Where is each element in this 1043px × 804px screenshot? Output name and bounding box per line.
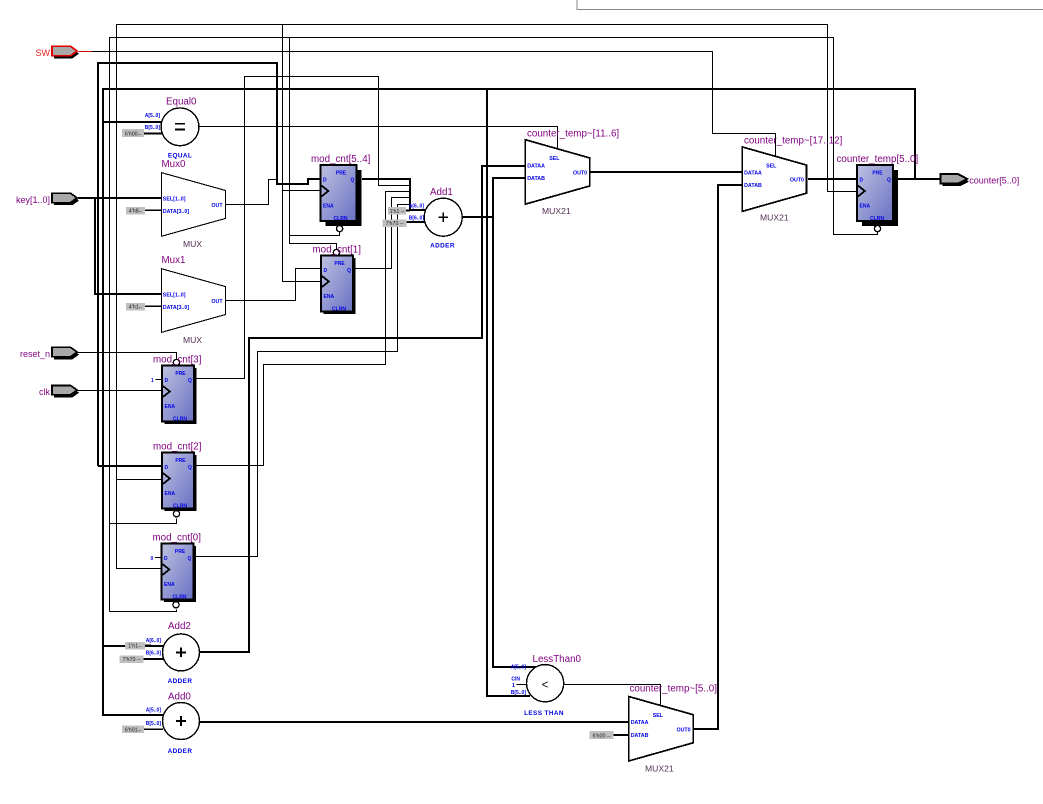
adder Add0 (163, 691, 200, 755)
constant 6'h01 for Add0 (122, 726, 163, 734)
svg-text:OUT0: OUT0 (573, 170, 587, 176)
svg-text:SEL: SEL (653, 713, 664, 719)
svg-text:A[6..0]: A[6..0] (146, 638, 162, 644)
wire key branch to Mux1 SEL (95, 198, 161, 294)
svg-text:DATAA: DATAA (744, 171, 762, 177)
wire SW red stub (79, 51, 92, 53)
wire Mux0 OUT joiner (226, 180, 277, 205)
svg-text:SEL[1..0]: SEL[1..0] (163, 292, 186, 298)
svg-text:counter[5..0]: counter[5..0] (969, 176, 1019, 186)
svg-text:Q: Q (188, 378, 192, 384)
wire reload bus top run to mod_cnt[5..4] D (98, 63, 320, 466)
svg-text:Q: Q (887, 178, 891, 184)
svg-text:MUX: MUX (183, 335, 202, 345)
svg-text:ENA: ENA (165, 491, 176, 497)
svg-text:DATAA: DATAA (527, 163, 545, 169)
wire mod_cnt[1] Q riser (354, 198, 410, 269)
svg-text:MUX: MUX (183, 239, 202, 249)
wire clk branch to mod_cnt[2] clock (117, 479, 163, 481)
svg-text:LESS THAN: LESS THAN (524, 710, 564, 717)
constant 6'h00 for counter_temp~[5..0] DATAB (590, 731, 629, 739)
svg-text:SEL[1..0]: SEL[1..0] (163, 196, 186, 202)
wire Add1 result riser to mux DATAB and LessThan0 A (493, 178, 536, 667)
constant 4'h1 for Mux1 DATA (126, 303, 161, 311)
svg-text:counter_temp[5..0]: counter_temp[5..0] (837, 154, 919, 165)
flip-flop mod_cnt[0] (151, 533, 202, 608)
wire clk riser and top run to counter_temp clock (117, 25, 858, 391)
wire SW net to counter_temp~[17..12] SEL (92, 52, 776, 158)
svg-text:7'h70 --: 7'h70 -- (123, 657, 141, 663)
wire clk branch to mod_cnt[0] clock (117, 391, 163, 569)
constant 7'h70 for Add2 (120, 655, 164, 663)
svg-text:1: 1 (512, 683, 515, 689)
input pin SW (36, 46, 80, 58)
svg-text:D: D (324, 268, 328, 274)
svg-text:Add0: Add0 (168, 691, 191, 702)
output pin counter[5..0] (941, 174, 1020, 186)
svg-text:counter_temp~[5..0]: counter_temp~[5..0] (630, 684, 718, 695)
wire Equal0 out to counter_temp~[11..6] SEL (199, 127, 558, 149)
svg-text:DATAB: DATAB (527, 176, 545, 182)
wire reset_n pin to mod_cnt[3] PRE bubble (78, 353, 177, 360)
svg-text:7'h70 --: 7'h70 -- (386, 221, 404, 227)
svg-text:Add1: Add1 (430, 187, 453, 198)
svg-text:CLRN: CLRN (173, 504, 187, 510)
svg-text:Mux1: Mux1 (162, 255, 186, 266)
svg-text:PRE: PRE (175, 549, 186, 555)
svg-text:CLRN: CLRN (173, 595, 187, 601)
wire counter feedback branch to Add2 A (103, 645, 164, 647)
svg-text:B[6..0]: B[6..0] (146, 651, 162, 657)
wire counter feedback Q riser and top run (103, 89, 915, 715)
svg-text:OUT: OUT (211, 203, 223, 209)
svg-text:CLRN: CLRN (173, 417, 187, 423)
svg-text:PRE: PRE (336, 171, 347, 177)
svg-text:ENA: ENA (860, 204, 871, 210)
svg-text:SW: SW (36, 48, 51, 58)
svg-text:mod_cnt[1]: mod_cnt[1] (313, 245, 362, 256)
svg-text:MUX21: MUX21 (760, 213, 789, 223)
flip-flop mod_cnt[3] (151, 355, 202, 425)
svg-text:1'h1--: 1'h1-- (128, 644, 142, 650)
svg-text:ENA: ENA (324, 294, 335, 300)
wire mod_cnt[5..4] Q to Add1 A (362, 179, 425, 210)
constant 1 for LessThan0 CIN (512, 683, 527, 689)
wire counter feedback branch to Equal0 A (103, 121, 162, 123)
svg-text:D: D (165, 378, 169, 384)
mux counter_temp~[17..12] (742, 136, 842, 223)
svg-text:B[5..0]: B[5..0] (146, 721, 162, 727)
constant 4'h8 for Mux0 DATA (126, 207, 161, 215)
wire mod_cnt[3] Q riser (195, 77, 410, 379)
wire Add1 B stub (407, 221, 426, 223)
svg-text:6'h00 --: 6'h00 -- (593, 733, 611, 739)
wire mod_cnt[2] Q riser (195, 192, 410, 466)
constant 1'h1 for Add2 (125, 642, 163, 650)
svg-text:6'h01--: 6'h01-- (125, 728, 142, 734)
input pin key[1..0] (16, 193, 79, 205)
svg-text:A[5..0]: A[5..0] (511, 664, 527, 670)
wire Mux1 OUT to mod_cnt[1] D (226, 269, 322, 301)
svg-text:mod_cnt[5..4]: mod_cnt[5..4] (311, 154, 371, 165)
svg-text:DATAB: DATAB (744, 183, 762, 189)
svg-text:4'h8--: 4'h8-- (129, 209, 143, 215)
svg-text:4'h1--: 4'h1-- (129, 305, 143, 311)
mux counter_temp~[11..6] (525, 129, 619, 217)
svg-text:B[5..0]: B[5..0] (511, 690, 527, 696)
svg-text:CIN: CIN (511, 677, 520, 683)
mux counter_temp~[5..0] (629, 684, 717, 774)
svg-text:ENA: ENA (165, 404, 176, 410)
wire clk branch to mod_cnt[5..4] clock (283, 190, 321, 192)
svg-text:ENA: ENA (323, 204, 334, 210)
mux Mux1 (161, 255, 225, 345)
svg-text:reset_n: reset_n (20, 349, 50, 359)
wire reset jog to mod_cnt[2] CLRN bubble (110, 519, 177, 524)
svg-text:D: D (860, 178, 864, 184)
wire counter_temp~[11..6] OUT0 to next DATAA (590, 171, 742, 173)
wire reset riser x109 top run to counter_temp CLRN (110, 38, 878, 612)
svg-text:CLRN: CLRN (332, 307, 346, 313)
svg-text:key[1..0]: key[1..0] (16, 195, 50, 205)
svg-text:Q: Q (188, 556, 192, 562)
svg-text:Q: Q (347, 268, 351, 274)
svg-text:<: < (542, 680, 549, 692)
wire key pin to Mux0 SEL (78, 197, 161, 199)
svg-text:mod_cnt[0]: mod_cnt[0] (153, 533, 202, 544)
wire Add2 out riser to mux DATAA (200, 166, 525, 652)
wire reload bus into mod_cnt[2] D (98, 465, 162, 467)
wire clk pin to mod_cnt[3] clock (78, 390, 163, 392)
svg-text:0: 0 (151, 556, 154, 562)
svg-text:mod_cnt[2]: mod_cnt[2] (153, 442, 202, 453)
input pin reset_n (20, 347, 79, 359)
wire mod_cnt[0] Q riser (194, 205, 410, 557)
wire reset branch to PRE mod_cnt[1] bubble (290, 236, 337, 250)
svg-text:B[6..0]: B[6..0] (409, 216, 425, 222)
wire Add1 out (462, 216, 493, 218)
svg-text:CLRN: CLRN (334, 216, 348, 222)
svg-text:Add2: Add2 (168, 621, 191, 632)
svg-text:ENA: ENA (164, 582, 175, 588)
svg-text:6'h00--: 6'h00-- (125, 131, 142, 137)
svg-text:MUX21: MUX21 (645, 763, 674, 773)
svg-text:ADDER: ADDER (168, 748, 193, 755)
wire Add0 out to counter_temp~[5..0] DATAA (200, 721, 629, 723)
wire counter_temp Q to output pin (895, 178, 941, 180)
svg-text:1: 1 (151, 378, 154, 384)
wire counter_temp~[17..12] OUT0 to DFF D (808, 178, 857, 180)
flip-flop mod_cnt[5..4] (311, 154, 371, 232)
svg-text:ADDER: ADDER (430, 243, 455, 250)
svg-text:DATAB: DATAB (631, 733, 649, 739)
svg-text:A[5..0]: A[5..0] (145, 113, 161, 119)
constant 1'h1 for Add1 (388, 207, 410, 215)
svg-text:1'h1 --: 1'h1 -- (390, 209, 405, 215)
svg-text:SEL: SEL (549, 156, 560, 162)
constant 7'h70 for Add1 (383, 219, 410, 227)
svg-text:Mux0: Mux0 (162, 159, 187, 170)
wire LessThan0 out to counter_temp~[5..0] SEL (565, 685, 661, 708)
svg-text:OUT0: OUT0 (676, 727, 690, 733)
flip-flop mod_cnt[1] (313, 245, 362, 315)
svg-text:MUX21: MUX21 (542, 206, 571, 216)
svg-text:D: D (165, 465, 169, 471)
UI pane border top right (577, 0, 1043, 10)
svg-text:clk: clk (39, 387, 50, 397)
svg-text:PRE: PRE (872, 171, 883, 177)
wire reset jog to mod_cnt[0] CLRN bubble (110, 610, 177, 612)
svg-text:SEL: SEL (766, 163, 777, 169)
svg-text:DATA[3..0]: DATA[3..0] (163, 209, 190, 215)
svg-text:A[5..0]: A[5..0] (146, 707, 162, 713)
svg-text:OUT: OUT (211, 299, 223, 305)
adder Add2 (163, 621, 200, 685)
svg-text:mod_cnt[3]: mod_cnt[3] (153, 355, 202, 366)
svg-text:B[5..0]: B[5..0] (145, 125, 161, 131)
svg-text:D: D (164, 556, 168, 562)
wire reset branch x289 to CLRN mod_cnt[5..4] bubble (290, 38, 340, 236)
svg-text:counter_temp~[17..12]: counter_temp~[17..12] (744, 136, 843, 147)
constant 6'h00 for Equal0 B (122, 129, 162, 137)
wire counter feedback branch to LessThan0 B (487, 89, 530, 696)
flip-flop mod_cnt[2] (153, 442, 202, 517)
svg-text:PRE: PRE (334, 261, 345, 267)
comparator Equal0 (161, 97, 199, 160)
flip-flop counter_temp[5..0] (837, 154, 919, 232)
svg-text:PRE: PRE (175, 371, 186, 377)
svg-text:ADDER: ADDER (168, 678, 193, 685)
input pin clk (39, 385, 79, 397)
comparator LessThan0 (524, 654, 581, 717)
adder Add1 (424, 187, 462, 250)
svg-text:D: D (323, 178, 327, 184)
svg-text:PRE: PRE (175, 458, 186, 464)
wire clk branch riser x282 to mod_cnt[1] clock (283, 25, 322, 282)
svg-text:LessThan0: LessThan0 (533, 654, 582, 665)
mux Mux0 (161, 159, 225, 249)
svg-text:DATA[3..0]: DATA[3..0] (163, 305, 190, 311)
svg-text:Equal0: Equal0 (166, 97, 197, 108)
svg-text:CLRN: CLRN (870, 216, 884, 222)
svg-text:Q: Q (351, 178, 355, 184)
svg-text:A[6..0]: A[6..0] (409, 204, 425, 210)
svg-text:Q: Q (188, 465, 192, 471)
wire counter_temp~[5..0] OUT0 riser to DATAB (693, 185, 742, 729)
svg-text:DATAA: DATAA (631, 720, 649, 726)
svg-text:counter_temp~[11..6]: counter_temp~[11..6] (527, 129, 619, 140)
svg-text:OUT0: OUT0 (790, 178, 804, 184)
